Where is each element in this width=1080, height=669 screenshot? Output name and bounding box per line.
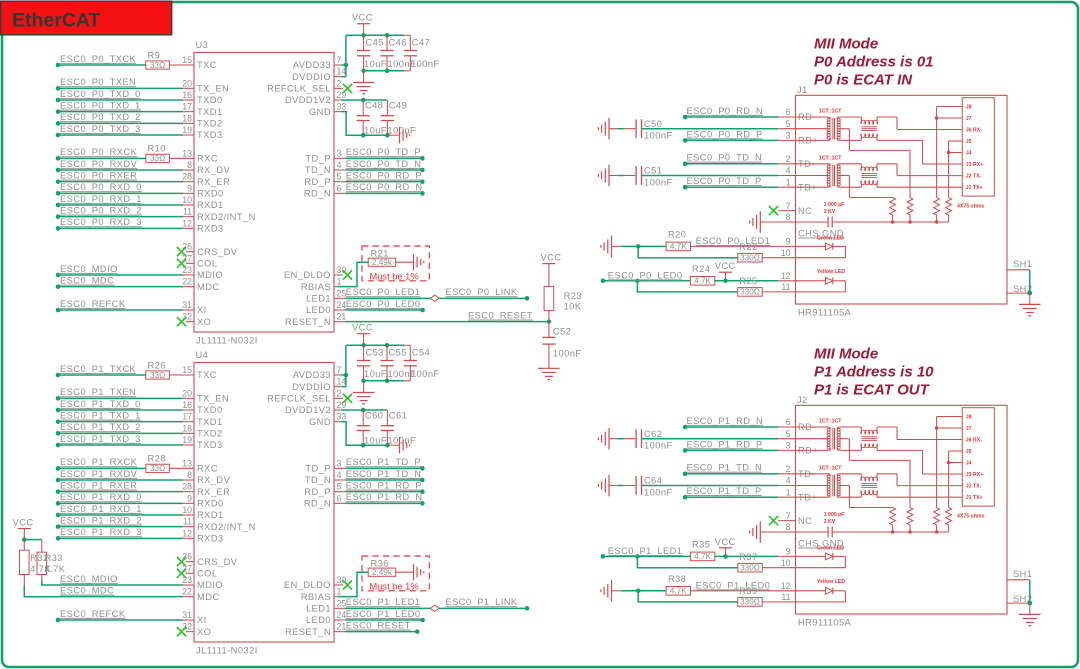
- svg-text:10: 10: [781, 248, 791, 258]
- RJ45 connector J1 HR911105A: [796, 95, 1008, 304]
- resistor R25 330 ohm: [637, 281, 737, 292]
- svg-text:16: 16: [182, 400, 192, 410]
- ground right: [399, 127, 401, 143]
- svg-text:MII Mode: MII Mode: [814, 346, 878, 363]
- wire ESC0_P1_RD_P: [683, 448, 688, 453]
- svg-text:ESC0_P0_TD_P: ESC0_P0_TD_P: [687, 176, 762, 186]
- svg-text:Must be 1%: Must be 1%: [370, 581, 419, 591]
- svg-text:R35: R35: [692, 540, 710, 550]
- wire J5 J4 to termination: [949, 450, 963, 452]
- svg-text:RXD3: RXD3: [197, 534, 224, 544]
- svg-text:ESC0_P0_RD_P: ESC0_P0_RD_P: [687, 129, 763, 139]
- wire ESC0_P0_TXD_2: [56, 121, 61, 126]
- wire ESC0_P0_RXD_1: [56, 203, 61, 208]
- svg-text:23: 23: [182, 575, 192, 585]
- svg-text:RBIAS: RBIAS: [301, 592, 331, 602]
- wire ESC0_P1_RXER: [56, 489, 61, 494]
- svg-text:ESC0_MDIO: ESC0_MDIO: [60, 574, 118, 584]
- svg-text:C49: C49: [389, 101, 407, 111]
- svg-text:3: 3: [786, 441, 791, 451]
- svg-text:33Ω: 33Ω: [150, 371, 165, 380]
- svg-text:DVDDIO: DVDDIO: [292, 72, 331, 82]
- wire ESC0_P0_TD_P: [683, 185, 688, 190]
- svg-text:6: 6: [337, 493, 342, 503]
- svg-text:11: 11: [781, 592, 790, 602]
- svg-text:2 KV: 2 KV: [824, 209, 836, 215]
- svg-text:J1: J1: [797, 85, 808, 95]
- decoupling rail top: [346, 344, 404, 346]
- svg-text:RD_N: RD_N: [304, 499, 331, 509]
- wire ESC0_REFCK: [56, 308, 61, 313]
- wire ESC0_REFCK: [56, 618, 61, 623]
- node ESC0_RESET junction: [547, 319, 552, 324]
- decoupling rail top: [346, 34, 404, 36]
- svg-text:ESC0_REFCK: ESC0_REFCK: [60, 609, 126, 619]
- wire ESC0_P1_RXD_3: [56, 536, 61, 541]
- svg-text:18: 18: [182, 113, 192, 123]
- svg-text:C48: C48: [365, 101, 383, 111]
- svg-text:4.7K: 4.7K: [670, 587, 687, 596]
- svg-text:J2: J2: [797, 395, 808, 405]
- svg-text:33Ω: 33Ω: [150, 464, 165, 473]
- capacitor C53 10uF: [363, 345, 365, 360]
- svg-text:33: 33: [337, 102, 347, 112]
- wire ESC0_P0_RXDV: [56, 168, 61, 173]
- svg-text:TXD3: TXD3: [197, 440, 223, 450]
- svg-text:C52: C52: [553, 327, 571, 337]
- svg-text:330Ω: 330Ω: [740, 598, 760, 607]
- svg-text:ESC0_P1_RXD_1: ESC0_P1_RXD_1: [60, 504, 142, 514]
- wire ESC0_P1_RD_P: [334, 491, 346, 493]
- svg-text:Must be 1%: Must be 1%: [370, 271, 419, 281]
- yellow LED: [796, 280, 826, 282]
- wire ESC0_P1_TXEN: [56, 396, 61, 401]
- wire ESC0_P0_RXD_3: [56, 226, 61, 231]
- svg-text:ESC0_MDC: ESC0_MDC: [60, 586, 114, 596]
- svg-text:ESC0_P1_RXCK: ESC0_P1_RXCK: [60, 457, 138, 467]
- svg-text:ESC0_P0_TXCK: ESC0_P0_TXCK: [60, 54, 137, 64]
- svg-text:ESC0_P0_TXEN: ESC0_P0_TXEN: [60, 77, 136, 87]
- svg-text:100nF: 100nF: [411, 59, 440, 69]
- svg-text:ESC0_RESET: ESC0_RESET: [468, 311, 533, 321]
- capacitor C52 100nF: [548, 322, 550, 338]
- svg-text:ESC0_P0_RXCK: ESC0_P0_RXCK: [60, 147, 138, 157]
- svg-text:28: 28: [182, 482, 192, 492]
- svg-text:ESC0_P1_TXD_3: ESC0_P1_TXD_3: [60, 434, 141, 444]
- svg-text:SH1: SH1: [1013, 259, 1032, 269]
- wire rx choke to J3: [877, 139, 923, 141]
- svg-text:ESC0_MDC: ESC0_MDC: [60, 276, 114, 286]
- chassis ground under SH: [1019, 613, 1041, 615]
- svg-text:J2 TX-: J2 TX-: [966, 174, 982, 180]
- svg-text:EN_DLDO: EN_DLDO: [284, 270, 331, 280]
- svg-text:ESC0_P0_LED0: ESC0_P0_LED0: [608, 270, 683, 280]
- svg-text:19: 19: [182, 435, 192, 445]
- svg-text:CRS_DV: CRS_DV: [197, 557, 238, 567]
- wire ESC0_P0_TD_N: [683, 162, 688, 167]
- svg-text:RXD2/INT_N: RXD2/INT_N: [197, 522, 256, 532]
- resistor R22 330 ohm: [638, 246, 738, 257]
- no-connect REFCLK_SEL: [334, 87, 343, 89]
- svg-text:6: 6: [786, 107, 791, 117]
- svg-text:U4: U4: [196, 350, 209, 360]
- termination resistors 4X75 ohms: [890, 508, 896, 526]
- resistor R32 4.7K: [23, 540, 25, 551]
- wire ESC0_P1_RXD_2: [56, 524, 61, 529]
- capacitor C46 100nF: [386, 35, 388, 50]
- wire ESC0_MDC: [58, 596, 183, 598]
- svg-text:J3 RX+: J3 RX+: [966, 162, 983, 168]
- svg-text:20: 20: [182, 388, 192, 398]
- svg-text:5: 5: [786, 429, 791, 439]
- capacitor C62 100nF to chassis: [608, 428, 610, 450]
- termination rail: [832, 531, 948, 533]
- svg-text:RXC: RXC: [197, 154, 218, 164]
- chassis ground under SH: [1019, 303, 1041, 305]
- svg-text:ESC0_P1_TXD_1: ESC0_P1_TXD_1: [60, 411, 141, 421]
- capacitor C54 100nF: [409, 345, 411, 360]
- svg-text:10K: 10K: [564, 302, 582, 312]
- svg-text:P0 is ECAT IN: P0 is ECAT IN: [814, 72, 913, 89]
- svg-text:R28: R28: [148, 454, 166, 464]
- wire ESC0_P0_RD_P: [334, 181, 346, 183]
- svg-text:28: 28: [182, 172, 192, 182]
- wire ESC0_P0_RXD_2: [56, 214, 61, 219]
- wire ESC0_P0_TXD_0: [56, 98, 61, 103]
- svg-text:ESC0_REFCK: ESC0_REFCK: [60, 299, 126, 309]
- svg-text:J3 RX+: J3 RX+: [966, 472, 983, 478]
- svg-text:Green LED: Green LED: [817, 546, 844, 552]
- wire ESC0_P0_TXD_3: [56, 133, 61, 138]
- svg-text:C46: C46: [389, 38, 407, 48]
- svg-text:ESC0_P1_RD_N: ESC0_P1_RD_N: [346, 492, 423, 502]
- svg-text:XO: XO: [197, 317, 211, 327]
- svg-text:100nF: 100nF: [644, 131, 673, 141]
- svg-text:REFCLK_SEL: REFCLK_SEL: [267, 394, 331, 404]
- svg-text:GND: GND: [309, 417, 331, 427]
- svg-text:15: 15: [182, 365, 192, 375]
- svg-text:11: 11: [183, 207, 192, 217]
- svg-text:RXD1: RXD1: [197, 510, 224, 520]
- ground right of RBIAS resistor: [413, 254, 415, 270]
- wire ESC0_P1_RXD_1: [56, 513, 61, 518]
- svg-text:R25: R25: [739, 276, 757, 286]
- wire ESC0_P1_RD_N: [683, 425, 688, 430]
- svg-text:TXC: TXC: [197, 370, 217, 380]
- svg-text:5: 5: [337, 482, 342, 492]
- svg-text:R21: R21: [371, 249, 389, 259]
- svg-text:ESC0_P0_RXD_3: ESC0_P0_RXD_3: [60, 217, 142, 227]
- svg-text:ESC0_P0_TD_P: ESC0_P0_TD_P: [346, 147, 421, 157]
- svg-text:1: 1: [786, 177, 791, 187]
- svg-text:4: 4: [337, 470, 342, 480]
- wire ESC0_P0_RXCK: [56, 156, 61, 161]
- svg-text:ESC0_P0_RXER: ESC0_P0_RXER: [60, 171, 137, 181]
- svg-text:12: 12: [182, 528, 192, 538]
- wire ESC0_P0_TD_N: [334, 169, 346, 171]
- svg-text:2: 2: [337, 78, 342, 88]
- svg-text:10uF: 10uF: [364, 59, 387, 69]
- svg-text:Green LED: Green LED: [817, 236, 844, 242]
- svg-text:1CT::1CT: 1CT::1CT: [819, 109, 842, 115]
- svg-text:ESC0_P0_TD_N: ESC0_P0_TD_N: [687, 153, 763, 163]
- svg-text:CRS_DV: CRS_DV: [197, 247, 238, 257]
- capacitor C60 10uF rail DVDD1V2: [334, 409, 342, 411]
- svg-text:COL: COL: [197, 259, 217, 269]
- svg-text:TD_N: TD_N: [305, 475, 331, 485]
- svg-text:9: 9: [187, 183, 192, 193]
- inner jack contacts box: [962, 408, 994, 506]
- svg-text:C54: C54: [412, 348, 430, 358]
- svg-text:ESC0_P1_LED0: ESC0_P1_LED0: [346, 609, 421, 619]
- wire ESC0_P0_LED0: [601, 279, 606, 284]
- svg-text:TX_EN: TX_EN: [197, 394, 229, 404]
- no-connect NC pin 7: [778, 520, 795, 522]
- svg-text:Yellow LED: Yellow LED: [817, 579, 845, 585]
- wire ESC0_P1_LED1 to ESC0_P1_LINK with diamond: [334, 607, 346, 609]
- svg-text:19: 19: [182, 125, 192, 135]
- capacitor C61 100nF: [386, 410, 388, 426]
- wire ESC0_MDIO: [56, 273, 61, 278]
- no-connect REFCLK_SEL: [334, 397, 343, 399]
- capacitor C51 100nF to chassis: [608, 165, 610, 187]
- wire tx choke to J2: [877, 163, 897, 165]
- svg-text:33Ω: 33Ω: [150, 61, 165, 70]
- IC U4 JL1111-N032I: [194, 363, 334, 643]
- svg-text:NC: NC: [798, 206, 812, 216]
- svg-text:J5: J5: [966, 449, 972, 455]
- wire ESC0_P0_TXCK: [56, 63, 61, 68]
- svg-text:R39: R39: [739, 586, 757, 596]
- svg-text:R20: R20: [668, 230, 686, 240]
- center tap path rx: [839, 128, 849, 130]
- IC U3 JL1111-N032I: [194, 53, 334, 333]
- svg-text:R37: R37: [739, 552, 757, 562]
- svg-text:TXD2: TXD2: [197, 429, 223, 439]
- svg-text:ESC0_P0_TXD_3: ESC0_P0_TXD_3: [60, 124, 141, 134]
- svg-text:ESC0_P1_LED0: ESC0_P1_LED0: [696, 580, 771, 590]
- svg-text:ESC0_P0_LED1: ESC0_P0_LED1: [346, 287, 421, 297]
- svg-text:20: 20: [182, 78, 192, 88]
- svg-text:1CT::1CT: 1CT::1CT: [819, 419, 842, 425]
- svg-text:16: 16: [182, 90, 192, 100]
- svg-text:4.7K: 4.7K: [45, 564, 66, 574]
- svg-text:8: 8: [187, 160, 192, 170]
- svg-text:4: 4: [786, 476, 791, 486]
- svg-text:ESC0_P0_LED0: ESC0_P0_LED0: [346, 299, 421, 309]
- resistor R39 330 ohm: [638, 591, 738, 602]
- svg-text:ESC0_P1_TXCK: ESC0_P1_TXCK: [60, 364, 137, 374]
- svg-text:100nF: 100nF: [644, 178, 673, 188]
- resistor R37 330 ohm: [637, 556, 737, 567]
- VCC rail for AVDD33/DVDDIO: [334, 64, 342, 66]
- center tap path rx: [839, 438, 849, 440]
- wire ESC0_RESET: [334, 321, 346, 323]
- capacitor 1000pF 2KV: [796, 531, 829, 533]
- svg-text:XI: XI: [197, 615, 207, 625]
- svg-text:100nF: 100nF: [388, 125, 417, 135]
- svg-text:P1 Address is 10: P1 Address is 10: [814, 364, 934, 381]
- svg-text:R22: R22: [739, 242, 757, 252]
- svg-text:23: 23: [182, 265, 192, 275]
- svg-text:VCC: VCC: [715, 261, 736, 271]
- RJ45 connector J2 HR911105A: [796, 405, 1008, 614]
- svg-text:R33: R33: [45, 553, 63, 563]
- svg-text:1CT::1CT: 1CT::1CT: [819, 155, 842, 161]
- GND pin rail: [334, 111, 342, 113]
- svg-text:17: 17: [182, 102, 192, 112]
- svg-text:LED1: LED1: [306, 294, 331, 304]
- svg-text:31: 31: [182, 300, 192, 310]
- wire ESC0_P1_TD_N: [683, 472, 688, 477]
- svg-text:7: 7: [337, 365, 342, 375]
- svg-text:ESC0_P1_TXEN: ESC0_P1_TXEN: [60, 387, 136, 397]
- svg-text:VCC: VCC: [352, 323, 373, 333]
- svg-text:RXD0: RXD0: [197, 189, 224, 199]
- no-connect pin 27: [186, 262, 194, 264]
- capacitor C45 10uF: [363, 35, 365, 50]
- svg-text:MDC: MDC: [197, 282, 220, 292]
- svg-text:5: 5: [786, 119, 791, 129]
- wire ESC0_P1_TXCK: [56, 373, 61, 378]
- svg-text:ESC0_P0_RXDV: ESC0_P0_RXDV: [60, 159, 138, 169]
- svg-text:10: 10: [182, 505, 192, 515]
- svg-text:ESC0_P0_TXD_0: ESC0_P0_TXD_0: [60, 89, 141, 99]
- ground: [363, 381, 365, 393]
- svg-text:AVDD33: AVDD33: [293, 370, 331, 380]
- svg-text:10uF: 10uF: [364, 435, 387, 445]
- wire rx choke to J6: [877, 116, 897, 118]
- wire ESC0_MDC: [56, 284, 61, 289]
- wire ESC0_P1_TD_N: [334, 479, 346, 481]
- svg-text:2.49k: 2.49k: [372, 568, 393, 577]
- svg-text:DVDDIO: DVDDIO: [292, 382, 331, 392]
- svg-text:LED0: LED0: [306, 615, 331, 625]
- svg-text:11: 11: [183, 517, 192, 527]
- no-connect pin 26: [186, 561, 194, 563]
- svg-text:4.7K: 4.7K: [694, 277, 711, 286]
- ground right: [399, 437, 401, 453]
- VCC rail for AVDD33/DVDDIO: [334, 374, 342, 376]
- svg-text:12: 12: [781, 271, 791, 281]
- svg-text:33: 33: [337, 412, 347, 422]
- wire ESC0_P0_TD_P: [334, 157, 346, 159]
- svg-text:RD_P: RD_P: [304, 487, 331, 497]
- svg-text:7: 7: [337, 55, 342, 65]
- common-mode choke tx: [861, 477, 878, 481]
- svg-text:C62: C62: [644, 429, 662, 439]
- GND pin rail: [334, 421, 342, 423]
- svg-text:14: 14: [337, 67, 347, 77]
- svg-text:SH1: SH1: [1013, 569, 1032, 579]
- resistor R36 2.49k must-be-1% dashed box: [362, 556, 429, 591]
- svg-text:R38: R38: [668, 574, 686, 584]
- svg-text:ESC0_P0_RXD_1: ESC0_P0_RXD_1: [60, 194, 142, 204]
- wire J8 J7 to termination: [937, 106, 963, 108]
- wire ESC0_P0_RD_P: [683, 138, 688, 143]
- svg-text:TXD1: TXD1: [197, 107, 223, 117]
- svg-text:ESC0_P1_TXD_0: ESC0_P1_TXD_0: [60, 399, 141, 409]
- svg-text:100nF: 100nF: [388, 435, 417, 445]
- wire ESC0_P0_LED0: [334, 309, 346, 311]
- svg-text:7: 7: [786, 511, 791, 521]
- svg-text:RXD1: RXD1: [197, 200, 224, 210]
- svg-text:R23: R23: [564, 291, 582, 301]
- svg-text:RX_ER: RX_ER: [197, 177, 230, 187]
- svg-text:C47: C47: [412, 38, 430, 48]
- wire ESC0_MDIO: [58, 584, 183, 586]
- svg-text:22: 22: [182, 277, 192, 287]
- svg-text:4.7K: 4.7K: [670, 242, 687, 251]
- svg-text:330Ω: 330Ω: [740, 564, 760, 573]
- svg-text:RD_N: RD_N: [304, 189, 331, 199]
- center tap path tx: [839, 485, 849, 487]
- svg-text:ESC0_P1_TD_P: ESC0_P1_TD_P: [687, 486, 762, 496]
- svg-text:REFCLK_SEL: REFCLK_SEL: [267, 84, 331, 94]
- svg-text:C51: C51: [644, 166, 662, 176]
- svg-text:U3: U3: [196, 40, 209, 50]
- svg-text:RX_DV: RX_DV: [197, 165, 231, 175]
- no-connect EN_DLDO: [334, 274, 343, 276]
- wire ESC0_P1_TXD_3: [56, 443, 61, 448]
- termination rail: [832, 221, 948, 223]
- svg-text:ESC0_RESET: ESC0_RESET: [346, 621, 411, 631]
- svg-text:10: 10: [182, 195, 192, 205]
- svg-text:R26: R26: [148, 360, 166, 370]
- svg-text:ESC0_P1_RXD_0: ESC0_P1_RXD_0: [60, 492, 142, 502]
- no-connect pin 32: [186, 321, 194, 323]
- svg-text:DVDD1V2: DVDD1V2: [285, 95, 331, 105]
- svg-text:R36: R36: [371, 559, 389, 569]
- svg-text:ESC0_P0_RD_P: ESC0_P0_RD_P: [346, 171, 422, 181]
- wire ESC0_P1_RXDV: [56, 478, 61, 483]
- svg-text:8: 8: [187, 470, 192, 480]
- svg-text:10uF: 10uF: [364, 125, 387, 135]
- svg-text:14: 14: [337, 377, 347, 387]
- capacitor C64 100nF to chassis: [608, 475, 610, 497]
- svg-text:J1 TX+: J1 TX+: [966, 495, 983, 501]
- svg-text:22: 22: [182, 587, 192, 597]
- common-mode choke rx: [861, 120, 878, 124]
- svg-text:ESC0_P0_RXD_0: ESC0_P0_RXD_0: [60, 182, 142, 192]
- svg-text:J6 RX-: J6 RX-: [966, 128, 982, 134]
- svg-text:12: 12: [182, 218, 192, 228]
- svg-text:J8: J8: [966, 415, 972, 421]
- svg-text:100nF: 100nF: [644, 488, 673, 498]
- wire ESC0_P0_TXEN: [56, 86, 61, 91]
- svg-text:21: 21: [337, 312, 347, 322]
- svg-text:R10: R10: [148, 144, 166, 154]
- svg-text:13: 13: [182, 148, 192, 158]
- svg-text:33Ω: 33Ω: [150, 154, 165, 163]
- green LED: [796, 555, 826, 557]
- svg-text:ESC0_MDIO: ESC0_MDIO: [60, 264, 118, 274]
- svg-text:4X75 ohms: 4X75 ohms: [957, 204, 985, 210]
- svg-text:J4: J4: [966, 461, 972, 467]
- svg-text:ESC0_P1_RD_N: ESC0_P1_RD_N: [687, 416, 764, 426]
- svg-text:2: 2: [786, 464, 791, 474]
- wire ESC0_P0_RD_N: [334, 192, 346, 194]
- svg-text:9: 9: [786, 237, 791, 247]
- svg-text:JL1111-N032I: JL1111-N032I: [196, 336, 258, 346]
- svg-text:J7: J7: [966, 116, 972, 122]
- svg-text:EN_DLDO: EN_DLDO: [284, 580, 331, 590]
- resistor R38 4.7K with chassis ground: [611, 580, 613, 602]
- svg-text:COL: COL: [197, 569, 217, 579]
- svg-text:1 000 pF: 1 000 pF: [824, 202, 845, 208]
- svg-text:ESC0_P1_TD_N: ESC0_P1_TD_N: [346, 469, 422, 479]
- svg-text:XI: XI: [197, 305, 207, 315]
